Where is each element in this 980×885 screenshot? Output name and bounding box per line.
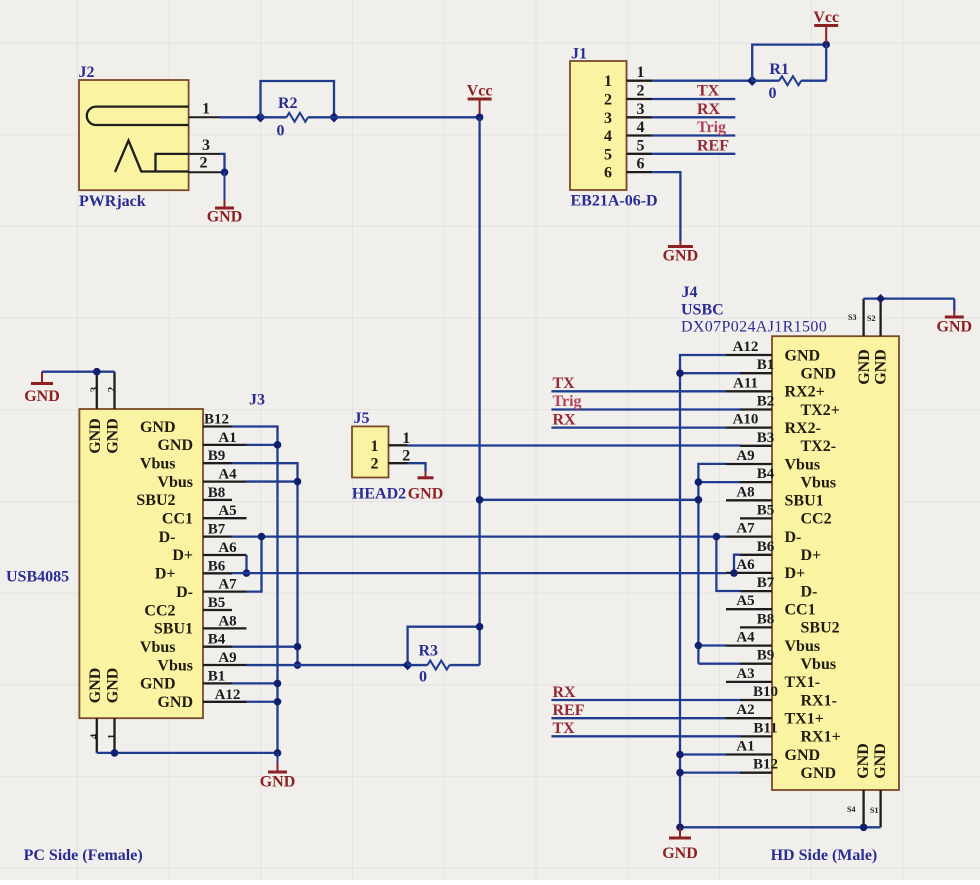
svg-text:Vbus: Vbus	[157, 657, 193, 674]
wire J1.6 to ground	[652, 172, 680, 241]
wire J3.A6 loop to D+	[245, 555, 247, 573]
svg-text:DX07P024AJ1R1500: DX07P024AJ1R1500	[681, 319, 827, 336]
svg-text:GND: GND	[140, 676, 176, 693]
ground GND (J4 bottom)	[662, 827, 698, 862]
value PWRjack	[79, 193, 146, 210]
svg-text:PWRjack: PWRjack	[79, 193, 146, 210]
J1 pin 4	[604, 119, 652, 145]
svg-text:D-: D-	[801, 583, 818, 600]
junction R3 loop top	[476, 623, 484, 631]
svg-text:SBU2: SBU2	[801, 620, 840, 637]
svg-text:RX1-: RX1-	[801, 692, 837, 709]
svg-text:0: 0	[277, 123, 285, 140]
junction D- at J4	[713, 533, 721, 541]
wire J3 shield bottom	[97, 752, 278, 754]
svg-text:2: 2	[106, 386, 118, 392]
wire net REF (J1.5)	[652, 153, 735, 155]
svg-text:J5: J5	[354, 410, 370, 427]
wire J4.B9 to Vbus bus	[698, 663, 740, 665]
wire J3.B4 to Vbus bus	[232, 646, 298, 648]
svg-text:GND: GND	[207, 209, 243, 226]
svg-text:3: 3	[637, 101, 645, 118]
svg-text:2: 2	[637, 83, 645, 100]
J1 pin 5	[604, 137, 652, 163]
svg-text:1: 1	[202, 101, 210, 118]
net label RX (J1)	[697, 101, 721, 118]
junction Vcc node	[476, 114, 484, 122]
J4 shield pin bottom-left	[862, 790, 864, 827]
svg-text:B11: B11	[753, 720, 777, 736]
caption HD Side (Male)	[771, 847, 878, 864]
J3 pin A12 (GND)	[157, 687, 246, 711]
junction GND bus A1	[274, 441, 282, 449]
svg-text:B2: B2	[757, 394, 775, 410]
svg-text:D+: D+	[155, 566, 176, 583]
wire J3.B1 to GND bus	[232, 682, 278, 684]
junction R1 left	[747, 76, 757, 86]
svg-text:CC2: CC2	[144, 602, 175, 619]
svg-text:Vbus: Vbus	[785, 638, 821, 655]
J3 pin A4 (Vbus)	[157, 467, 246, 491]
caption PC Side (Female)	[24, 847, 143, 864]
svg-text:1: 1	[604, 73, 612, 90]
wire Vcc to J4 Vbus bus	[480, 499, 699, 501]
J3 shield pin top-right number	[106, 386, 118, 392]
wire J4 shield top to GND	[864, 297, 955, 299]
svg-text:A4: A4	[736, 630, 755, 646]
wire Vcc vertical bus	[478, 117, 480, 665]
J3 internal label GND vertical 3	[87, 668, 104, 704]
svg-text:RX1+: RX1+	[801, 729, 841, 746]
junction Vcc vertical feed	[476, 496, 484, 504]
wire J2.3 to J2.2	[220, 154, 225, 172]
svg-text:A6: A6	[736, 557, 755, 573]
svg-text:B5: B5	[757, 502, 775, 518]
svg-text:4: 4	[89, 733, 101, 739]
svg-text:B8: B8	[208, 485, 226, 501]
svg-text:2: 2	[371, 456, 379, 473]
svg-text:TX: TX	[553, 720, 576, 737]
junction D- at J3.A7	[258, 533, 266, 541]
svg-text:A9: A9	[218, 650, 236, 666]
svg-text:D-: D-	[159, 529, 176, 546]
J4 pin B7 (D-)	[740, 575, 817, 600]
svg-text:A3: A3	[736, 666, 754, 682]
svg-text:GND: GND	[408, 486, 444, 503]
resistor R3	[428, 661, 450, 670]
svg-text:GND: GND	[87, 418, 104, 454]
svg-text:RX: RX	[553, 412, 577, 429]
svg-text:B6: B6	[757, 539, 775, 555]
J3 pin B6 (D+)	[155, 558, 232, 582]
svg-text:J4: J4	[682, 284, 698, 301]
J4 pin A2 (TX1+)	[726, 702, 824, 727]
J1 pin 3	[604, 101, 652, 127]
J4 pin A4 (Vbus)	[726, 630, 820, 655]
svg-text:EB21A-06-D: EB21A-06-D	[571, 193, 658, 210]
wire net RX (J1.3)	[652, 116, 735, 118]
J2 pin contact symbol	[115, 141, 189, 173]
wire J5.2 to ground	[408, 463, 426, 471]
svg-text:TX: TX	[697, 83, 720, 100]
junction D+ at J3.A6	[243, 569, 251, 577]
J4 pin B11 (RX1+)	[740, 720, 841, 745]
svg-text:GND: GND	[785, 747, 821, 764]
J4 pin A12 (GND)	[726, 339, 820, 364]
svg-text:B4: B4	[757, 466, 775, 482]
svg-text:CC1: CC1	[162, 511, 193, 528]
svg-text:A7: A7	[218, 577, 237, 593]
J4 pin A5 (CC1)	[726, 593, 816, 618]
J1 pin 2	[604, 83, 652, 109]
svg-text:GND: GND	[157, 437, 193, 454]
wire net TX to J4.B11	[551, 735, 740, 737]
svg-text:HD Side (Male): HD Side (Male)	[771, 847, 878, 864]
net label Trig (J4 mid)	[553, 393, 582, 410]
junction J4 GND bus bottom	[676, 824, 684, 832]
svg-text:6: 6	[604, 165, 612, 182]
junction J3 shield bottom	[111, 749, 119, 757]
svg-text:A1: A1	[736, 739, 754, 755]
J4 pin A1 (GND)	[726, 739, 820, 764]
svg-text:J1: J1	[571, 46, 587, 63]
J4 pin A7 (D-)	[726, 521, 801, 546]
svg-text:GND: GND	[260, 774, 296, 791]
J3 shield pin bottom-left number	[89, 733, 101, 739]
svg-text:GND: GND	[157, 694, 193, 711]
J4 pin B4 (Vbus)	[740, 466, 836, 491]
wire R1 left lead	[752, 80, 779, 82]
svg-text:REF: REF	[697, 137, 729, 154]
svg-text:Trig: Trig	[553, 393, 582, 410]
wire net RX to J4.A10	[551, 426, 726, 428]
svg-text:0: 0	[419, 669, 427, 686]
svg-text:D+: D+	[172, 547, 193, 564]
junction J4 GND bus B1	[676, 369, 684, 377]
resistor R2	[287, 113, 309, 122]
svg-text:HEAD2: HEAD2	[352, 486, 406, 503]
J2 pin 3	[189, 153, 220, 155]
junction J4 Vbus A4	[695, 642, 703, 650]
svg-text:1: 1	[637, 64, 645, 81]
wire R1 right vertical	[825, 45, 827, 81]
J4 pin A3 (TX1-)	[726, 666, 820, 691]
svg-text:GND: GND	[140, 419, 176, 436]
svg-text:R2: R2	[278, 95, 298, 112]
wire J3 shield top to GND	[42, 371, 115, 373]
junction J2 pin2 node	[221, 169, 229, 177]
svg-text:5: 5	[637, 137, 645, 154]
svg-text:B1: B1	[757, 357, 775, 373]
value DX07P024AJ1R1500	[681, 319, 827, 336]
svg-text:Vbus: Vbus	[140, 639, 176, 656]
ground GND (J4 top)	[937, 311, 973, 336]
J3 shield pin bottom-right	[113, 718, 115, 753]
J4 internal label GND vertical 2	[873, 349, 890, 385]
svg-text:3: 3	[202, 137, 210, 154]
wire R2 right lead	[308, 116, 334, 118]
svg-text:GND: GND	[856, 349, 873, 385]
junction J4 GND bus B12	[676, 769, 684, 777]
svg-text:GND: GND	[801, 765, 837, 782]
svg-text:1: 1	[106, 734, 118, 740]
wire net D+ (J3.B6 to J4.A6)	[232, 572, 726, 574]
junction J4 Vbus B4	[695, 478, 703, 486]
J3 pin B7 (D-)	[159, 522, 232, 546]
wire R2 to Vcc node	[334, 116, 480, 118]
svg-text:R1: R1	[769, 61, 789, 78]
J3 internal label GND vertical 1	[87, 418, 104, 454]
wire net REF to J4.A2	[551, 717, 726, 719]
label R3	[419, 643, 439, 660]
designator J3	[249, 392, 265, 409]
net label TX (J1)	[697, 83, 720, 100]
wire J4.A9 Vbus bus	[698, 464, 726, 664]
J2 barrel symbol	[87, 107, 189, 125]
svg-text:GND: GND	[801, 366, 837, 383]
svg-text:A12: A12	[733, 339, 759, 355]
wire R3 left lead	[408, 664, 428, 666]
value USB4085	[6, 569, 69, 586]
svg-text:GND: GND	[873, 349, 890, 385]
junction R3 left	[402, 660, 412, 670]
connector J2 PWRjack body	[79, 80, 189, 190]
svg-text:Vbus: Vbus	[785, 456, 821, 473]
svg-text:Vcc: Vcc	[813, 9, 839, 26]
J4 shield pin bottom-right	[879, 790, 881, 827]
wire J3.A9 to R3	[247, 664, 408, 666]
wire net TX (J1.2)	[652, 98, 735, 100]
svg-text:3: 3	[604, 110, 612, 127]
wire J3.A12 to GND bus	[247, 701, 278, 703]
svg-text:USB4085: USB4085	[6, 569, 69, 586]
svg-text:USBC: USBC	[681, 302, 724, 319]
label R1	[769, 61, 789, 78]
wire J4.A12 GND bus	[680, 355, 726, 827]
J2 pin 2	[189, 171, 220, 173]
svg-text:0: 0	[769, 85, 777, 102]
J4 shield pin bottom-right number	[870, 806, 878, 815]
svg-text:B1: B1	[208, 668, 226, 684]
J4 pin B12 (GND)	[740, 757, 836, 782]
J3 pin A1 (GND)	[157, 430, 246, 454]
value HEAD2	[352, 486, 406, 503]
svg-text:GND: GND	[662, 845, 698, 862]
junction D+ at J4	[730, 569, 738, 577]
J5 pin 2	[371, 448, 411, 473]
J1 pin 6	[604, 156, 652, 182]
svg-text:RX: RX	[553, 684, 577, 701]
J2 pin 1	[189, 116, 220, 118]
junction GND bus B1	[274, 680, 282, 688]
svg-text:A7: A7	[736, 521, 755, 537]
svg-text:B4: B4	[208, 632, 226, 648]
svg-text:SBU1: SBU1	[785, 493, 824, 510]
svg-text:GND: GND	[105, 418, 122, 454]
svg-text:A8: A8	[218, 613, 236, 629]
J2 pin 3 number	[202, 137, 210, 154]
wire R3 bypass loop	[408, 627, 480, 665]
J3 pin A6 (D+)	[172, 540, 246, 564]
svg-text:R3: R3	[419, 643, 439, 660]
J3 shield pin top-left	[96, 372, 98, 409]
svg-text:A2: A2	[736, 702, 754, 718]
wire J4.B4 to Vbus bus	[698, 481, 740, 483]
svg-text:PC Side (Female): PC Side (Female)	[24, 847, 143, 864]
svg-text:1: 1	[402, 430, 410, 447]
svg-text:B9: B9	[208, 448, 226, 464]
svg-text:RX2+: RX2+	[785, 384, 825, 401]
J3 pin A7 (D-)	[176, 577, 246, 601]
J4 shield pin top-right number	[867, 314, 875, 323]
svg-text:B7: B7	[757, 575, 775, 591]
svg-text:GND: GND	[105, 668, 122, 704]
wire R1 bypass loop	[752, 45, 826, 81]
J3 shield pin top-left number	[89, 386, 101, 392]
connector J1 body	[570, 61, 627, 190]
wire R1 right lead	[801, 80, 826, 82]
svg-text:A9: A9	[736, 448, 754, 464]
svg-text:Vbus: Vbus	[801, 656, 837, 673]
svg-text:D-: D-	[176, 584, 193, 601]
wire J4.B6 loop to D+	[734, 555, 740, 573]
label USBC	[681, 302, 724, 319]
svg-text:A11: A11	[733, 375, 758, 391]
svg-text:TX2+: TX2+	[801, 402, 840, 419]
junction J4 GND bus A1	[676, 751, 684, 759]
J1 pin 1	[604, 64, 652, 90]
svg-text:B9: B9	[757, 648, 775, 664]
svg-text:SBU2: SBU2	[136, 492, 175, 509]
J2 pin 2 number	[200, 155, 208, 172]
wire net D- (J3.B7 to J4.A7)	[232, 535, 726, 537]
J4 internal label GND vertical 3	[855, 743, 872, 779]
wire J3.A1 to GND bus	[247, 444, 278, 446]
wire J4.B7 loop to D-	[716, 537, 740, 591]
svg-text:CC1: CC1	[785, 602, 816, 619]
svg-text:6: 6	[637, 156, 645, 173]
designator J2	[79, 64, 95, 81]
wire J4 top GND drop	[953, 299, 955, 311]
connector J4 body	[772, 336, 899, 790]
designator J1	[571, 46, 587, 63]
value EB21A-06-D	[571, 193, 658, 210]
resistor R1	[779, 76, 801, 85]
wire R3 right lead	[450, 664, 480, 666]
svg-text:B10: B10	[753, 684, 778, 700]
net label Trig (J1)	[697, 119, 726, 136]
svg-text:GND: GND	[855, 743, 872, 779]
value 0 (R3)	[419, 669, 427, 686]
svg-text:RX: RX	[697, 101, 721, 118]
J4 pin A10 (RX2-)	[726, 412, 821, 437]
wire J2.1 to R2	[220, 116, 261, 118]
svg-text:1: 1	[371, 438, 379, 455]
svg-text:S4: S4	[847, 805, 855, 814]
net label REF (J1)	[697, 137, 729, 154]
net label RX (J4 bottom)	[553, 684, 577, 701]
wire net Trig (J1.4)	[652, 134, 735, 136]
value 0 (R1)	[769, 85, 777, 102]
svg-text:TX1-: TX1-	[785, 674, 821, 691]
svg-text:3: 3	[89, 386, 101, 392]
junction Vcc top-right node	[822, 41, 830, 49]
svg-text:S1: S1	[870, 806, 878, 815]
J4 pin A8 (SBU1)	[726, 484, 824, 509]
svg-text:4: 4	[637, 119, 645, 136]
J3 shield pin top-right	[113, 372, 115, 409]
svg-text:A5: A5	[736, 593, 754, 609]
wire J4.A1 to GND bus	[680, 753, 726, 755]
svg-text:GND: GND	[24, 388, 60, 405]
J3 pin B8 (SBU2)	[136, 485, 232, 509]
J4 pin B9 (Vbus)	[740, 648, 836, 673]
svg-text:TX1+: TX1+	[785, 711, 824, 728]
svg-text:D+: D+	[785, 565, 806, 582]
J4 shield pin top-right	[879, 299, 881, 337]
J4 internal label GND vertical 1	[856, 349, 873, 385]
J3 shield pin bottom-left	[96, 718, 98, 753]
svg-text:A12: A12	[215, 687, 241, 703]
J4 shield pin top-left number	[848, 313, 856, 322]
svg-text:GND: GND	[785, 347, 821, 364]
junction J4 shield bottom	[860, 824, 868, 832]
svg-text:4: 4	[604, 128, 612, 145]
net label TX (J4 bottom)	[553, 720, 576, 737]
J3 shield pin bottom-right number	[106, 734, 118, 740]
ground GND (J1)	[663, 241, 699, 265]
J4 shield pin bottom-left number	[847, 805, 855, 814]
svg-text:TX: TX	[553, 375, 576, 392]
svg-text:Vcc: Vcc	[467, 83, 493, 100]
svg-text:D-: D-	[785, 529, 802, 546]
svg-text:CC2: CC2	[801, 511, 832, 528]
J3 internal label GND vertical 4	[105, 668, 122, 704]
J3 pin B9 (Vbus)	[140, 448, 232, 472]
svg-text:A4: A4	[218, 467, 237, 483]
junction GND bus bottom	[274, 749, 282, 757]
svg-text:2: 2	[604, 92, 612, 109]
J2 pin 1 number	[202, 101, 210, 118]
svg-text:TX2-: TX2-	[801, 438, 837, 455]
wire J4.B12 to GND bus	[680, 771, 740, 773]
J4 pin B1 (GND)	[740, 357, 836, 382]
junction R2 right	[329, 112, 339, 122]
wire J3.A7 loop to D-	[247, 537, 262, 592]
designator J5	[354, 410, 370, 427]
J3 pin B1 (GND)	[140, 668, 232, 692]
wire J5.1 to J4.B3	[408, 444, 741, 446]
wire J4 shield bottom	[680, 826, 881, 828]
junction J4 Vbus feed	[695, 496, 703, 504]
wire J3.A4 to Vbus bus	[247, 480, 298, 482]
junction J3 shield top	[93, 368, 101, 376]
svg-text:Vbus: Vbus	[157, 474, 193, 491]
designator J4	[682, 284, 698, 301]
J4 pin A9 (Vbus)	[726, 448, 820, 473]
J4 pin B10 (RX1-)	[740, 684, 837, 709]
label R2	[278, 95, 298, 112]
value 0 (R2)	[277, 123, 285, 140]
J4 pin B2 (TX2+)	[740, 394, 840, 419]
J4 internal label GND vertical 4	[872, 743, 889, 779]
ground GND (J3 top)	[24, 372, 60, 405]
power Vcc (center)	[467, 83, 493, 116]
svg-text:B8: B8	[757, 611, 775, 627]
J4 pin B6 (D+)	[740, 539, 821, 564]
ground GND (J5)	[408, 471, 444, 503]
wire J4.A4 to Vbus bus	[698, 644, 726, 646]
